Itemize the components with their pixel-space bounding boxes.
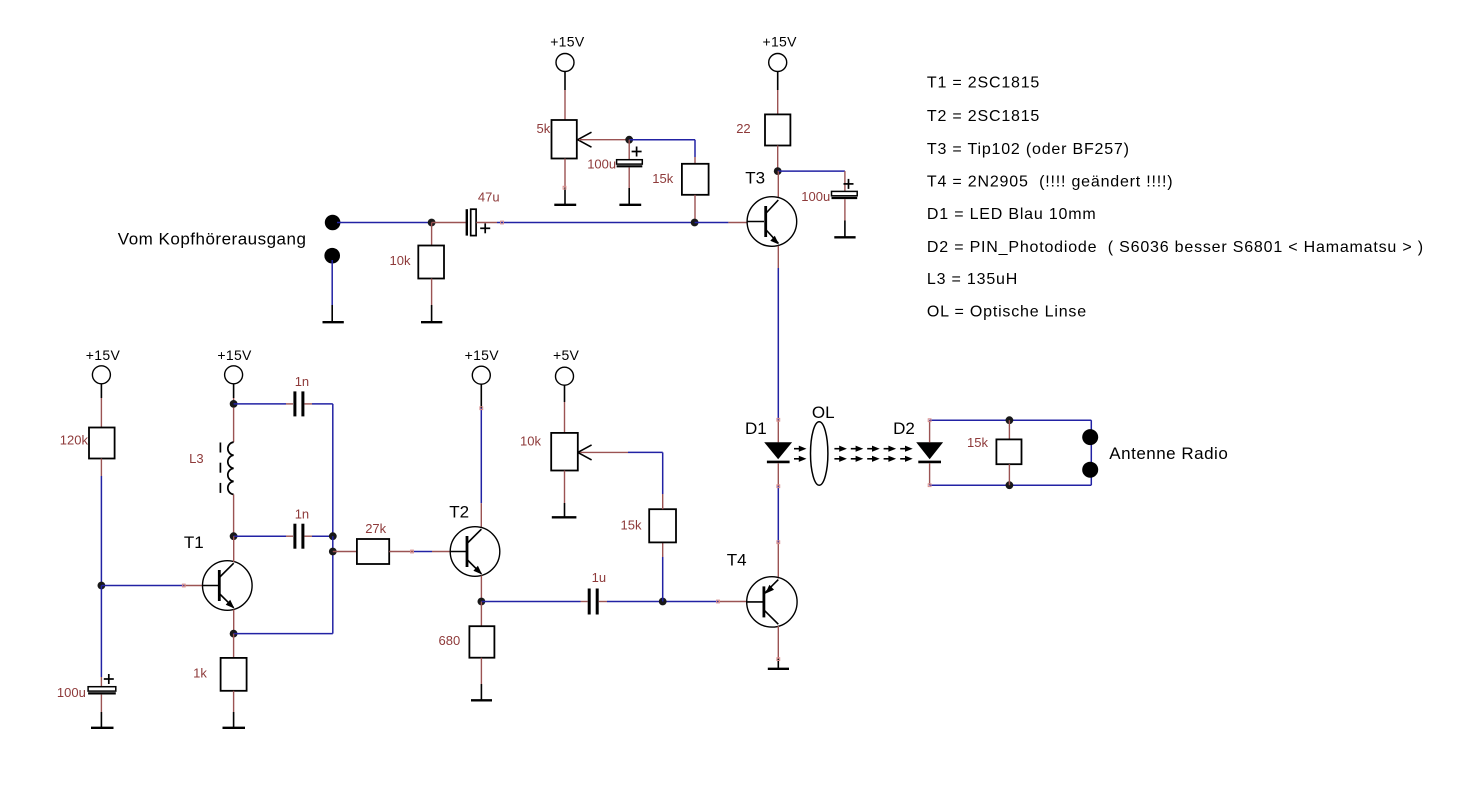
node T2 emitter bbox=[478, 598, 486, 606]
wire 22 to collector node bbox=[777, 146, 779, 172]
wire wiper to node bbox=[579, 139, 629, 141]
svg-text:1k: 1k bbox=[193, 666, 207, 681]
node wiper junction bbox=[625, 136, 633, 144]
label T3 collector wire to D1 bbox=[777, 246, 779, 442]
wire D1 to T4 bbox=[777, 463, 779, 542]
wire 5k bottom bbox=[564, 159, 566, 188]
resistor 120k bbox=[60, 428, 115, 459]
node main junction under 15k bbox=[691, 219, 699, 227]
node T3 collector bbox=[774, 167, 782, 175]
wire C1n bottom to right rail bbox=[305, 535, 333, 537]
potentiometer 10k bbox=[520, 433, 592, 471]
ground under 1k bbox=[223, 712, 246, 728]
svg-text:+15V: +15V bbox=[86, 347, 121, 363]
capacitor 100u (left) bbox=[587, 140, 642, 188]
svg-text:10k: 10k bbox=[520, 433, 541, 448]
capacitor 1n (bottom) bbox=[295, 507, 309, 549]
svg-text:T3: T3 bbox=[745, 169, 765, 188]
power +15V above 120k bbox=[86, 347, 121, 398]
wire supply to node bbox=[233, 398, 235, 404]
svg-text:5k: 5k bbox=[537, 121, 551, 136]
wire node to C1n top bbox=[234, 403, 293, 405]
capacitor 1n (top) bbox=[295, 374, 309, 416]
terminal pad IN2 bbox=[324, 248, 340, 264]
transistor T2 bbox=[449, 503, 500, 602]
wire supply to 10k pot bbox=[564, 402, 566, 433]
svg-text:OL: OL bbox=[812, 403, 835, 422]
resistor 15k (bottom) bbox=[621, 494, 677, 542]
parts list text block bbox=[927, 75, 1424, 321]
svg-text:OL = Optische Linse: OL = Optische Linse bbox=[927, 304, 1087, 321]
wire C47u to T3 base junction bbox=[476, 222, 497, 224]
node L3 bottom / T1 collector bbox=[230, 532, 238, 540]
wire supply to 22 bbox=[777, 90, 779, 114]
power +15V above 5k bbox=[550, 34, 585, 90]
svg-text:10k: 10k bbox=[390, 253, 411, 268]
ground under 100u right bbox=[834, 221, 855, 238]
svg-text:15k: 15k bbox=[652, 171, 673, 186]
resistor 22 bbox=[736, 114, 790, 145]
node right rail 27k bbox=[329, 548, 337, 556]
node right rail cap bbox=[329, 532, 337, 540]
wire supply to 120k bbox=[100, 398, 102, 428]
terminal pad antenna bottom bbox=[1082, 462, 1098, 478]
svg-text:100u: 100u bbox=[587, 157, 616, 172]
ground under IN2 bbox=[323, 305, 344, 322]
capacitor 1u bbox=[589, 570, 606, 614]
wire 15k top to 10k wiper bbox=[579, 452, 663, 494]
power +15V above T2 bbox=[465, 347, 500, 408]
svg-text:T2: T2 bbox=[449, 503, 469, 522]
svg-text:+15V: +15V bbox=[550, 34, 585, 50]
svg-text:L3: L3 bbox=[189, 451, 203, 466]
node L3 top bbox=[230, 400, 238, 408]
wire IN2 down bbox=[331, 260, 333, 305]
wire antenna right rail bbox=[1090, 420, 1092, 485]
transistor T1 bbox=[184, 533, 252, 633]
svg-text:1n: 1n bbox=[295, 374, 309, 389]
svg-text:T2 = 2SC1815: T2 = 2SC1815 bbox=[927, 108, 1040, 125]
inductor L3 bbox=[189, 408, 234, 537]
resistor 15k (top) bbox=[652, 164, 708, 223]
svg-text:L3 = 135uH: L3 = 135uH bbox=[927, 271, 1018, 288]
wire node to 27k bbox=[333, 551, 357, 553]
svg-text:Antenne Radio: Antenne Radio bbox=[1109, 444, 1228, 463]
svg-text:1n: 1n bbox=[295, 507, 309, 522]
light arrows lens to D2 bbox=[834, 446, 912, 462]
wire emitter to 1u bbox=[481, 601, 587, 603]
wire right rail vertical bbox=[332, 404, 334, 536]
capacitor 100u (right) bbox=[801, 171, 857, 220]
svg-text:D1: D1 bbox=[745, 419, 767, 438]
wire node up to 15k bbox=[662, 542, 664, 601]
wire 10k pot bottom bbox=[564, 471, 566, 504]
ground under 5k bbox=[554, 188, 576, 205]
power +15V above L3 bbox=[217, 347, 252, 398]
node 15k bottom bbox=[1006, 481, 1014, 489]
resistor 15k (antenna) bbox=[967, 420, 1022, 485]
ground under T4 bbox=[768, 659, 789, 669]
power +15V above 22 bbox=[763, 34, 798, 90]
resistor 680 bbox=[439, 602, 495, 685]
svg-text:15k: 15k bbox=[621, 518, 642, 533]
ground under 10k bbox=[421, 305, 442, 322]
svg-text:D2: D2 bbox=[893, 419, 915, 438]
LED D1 bbox=[745, 419, 792, 462]
wire junction to T3 base bbox=[695, 222, 748, 224]
svg-text:+15V: +15V bbox=[217, 347, 252, 363]
svg-text:15k: 15k bbox=[967, 435, 988, 450]
wire node to T1 base bbox=[101, 585, 202, 587]
capacitor 47u bbox=[467, 189, 500, 235]
svg-text:T1: T1 bbox=[184, 533, 204, 552]
photodiode D2 bbox=[893, 419, 943, 485]
svg-text:D2 = PIN_Photodiode ( S6036 b: D2 = PIN_Photodiode ( S6036 besser S6801… bbox=[927, 239, 1424, 256]
resistor 27k bbox=[357, 521, 389, 564]
ground under 100u bottom left bbox=[91, 712, 114, 728]
power +5V above 10k bbox=[553, 347, 580, 402]
wire supply to 5k bbox=[564, 90, 566, 120]
terminal pad IN1 bbox=[325, 215, 341, 231]
node 1u/15k junction bbox=[659, 598, 667, 606]
svg-text:T1 = 2SC1815: T1 = 2SC1815 bbox=[927, 75, 1040, 92]
svg-text:T4 = 2N2905 (!!!! geändert !!: T4 = 2N2905 (!!!! geändert !!!!) bbox=[927, 174, 1174, 191]
svg-text:+15V: +15V bbox=[763, 34, 798, 50]
resistor 10k bbox=[390, 223, 445, 306]
capacitor 100u (bottom left) bbox=[57, 674, 116, 712]
transistor T3 bbox=[745, 169, 796, 247]
light arrows D1 to lens bbox=[794, 446, 807, 462]
svg-text:Vom Kopfhörerausgang: Vom Kopfhörerausgang bbox=[118, 230, 307, 249]
lens OL bbox=[811, 403, 835, 485]
node input junction bbox=[428, 219, 436, 227]
svg-text:T3 = Tip102 (oder BF257): T3 = Tip102 (oder BF257) bbox=[927, 141, 1130, 158]
svg-text:+5V: +5V bbox=[553, 347, 580, 363]
wire node to C1n bottom bbox=[234, 535, 293, 537]
wire D2 top rail bbox=[930, 419, 1092, 421]
node 15k top bbox=[1006, 416, 1014, 424]
ground under 680 bbox=[471, 684, 492, 700]
potentiometer 5k bbox=[537, 120, 592, 159]
wire 27k to T2 base bbox=[389, 551, 451, 553]
svg-text:D1 = LED Blau 10mm: D1 = LED Blau 10mm bbox=[927, 206, 1097, 223]
wire emitter node to right rail bbox=[234, 633, 333, 635]
wire junction to C47u bbox=[432, 222, 466, 224]
svg-text:1u: 1u bbox=[592, 570, 606, 585]
svg-text:27k: 27k bbox=[365, 521, 386, 536]
svg-text:100u: 100u bbox=[801, 189, 830, 204]
ground under 100u left bbox=[619, 188, 641, 205]
node T1 emitter bbox=[230, 630, 238, 638]
wire 1u to T4 base bbox=[599, 601, 747, 603]
resistor 1k bbox=[193, 634, 247, 712]
wire node down to 100u bbox=[100, 586, 102, 687]
wire node to 100u right bbox=[778, 170, 845, 172]
pin endpoint markers bbox=[182, 186, 931, 660]
ground under 10k pot bbox=[552, 503, 577, 517]
svg-text:T4: T4 bbox=[727, 550, 747, 569]
wire node to 15k top bbox=[629, 140, 695, 164]
svg-text:+15V: +15V bbox=[465, 347, 500, 363]
wire D2 bottom rail bbox=[930, 484, 1092, 486]
node divider bbox=[98, 582, 106, 590]
wire supply to T2 collector bbox=[480, 408, 482, 528]
svg-text:100u: 100u bbox=[57, 685, 86, 700]
terminal pad antenna top bbox=[1082, 429, 1098, 445]
transistor T4 bbox=[727, 542, 797, 659]
wire C1n top to right rail bbox=[305, 403, 333, 405]
svg-text:680: 680 bbox=[439, 633, 461, 648]
svg-text:120k: 120k bbox=[60, 432, 89, 447]
svg-text:47u: 47u bbox=[478, 189, 500, 204]
wire right rail to emitter row bbox=[332, 536, 334, 633]
svg-text:22: 22 bbox=[736, 121, 750, 136]
wire input to junction bbox=[337, 222, 432, 224]
wire 120k to divider node bbox=[100, 459, 102, 586]
